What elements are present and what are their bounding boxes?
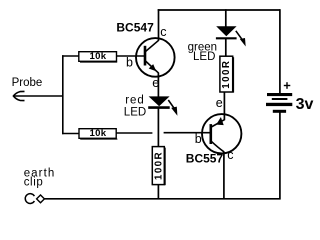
wire: probe node to R1 <box>62 55 79 57</box>
svg-text:LED: LED <box>124 107 146 119</box>
wire: BC547 emitter down to red LED <box>157 73 159 97</box>
svg-text:c: c <box>227 148 233 162</box>
red LED light arrow <box>168 100 177 116</box>
battery BT1 plus sign <box>284 82 291 89</box>
svg-text:BC547: BC547 <box>116 20 154 34</box>
svg-text:10k: 10k <box>90 128 107 139</box>
wire: BC547 collector to top rail <box>158 9 160 40</box>
svg-text:e: e <box>216 96 223 110</box>
svg-text:red: red <box>125 95 145 107</box>
earth clip jaw diamond <box>37 195 45 203</box>
svg-text:3v: 3v <box>296 96 314 113</box>
svg-text:e: e <box>152 76 159 90</box>
wire: red LED to R3 <box>157 107 159 147</box>
wire: green LED to R4 <box>225 38 227 58</box>
svg-text:Probe: Probe <box>12 77 43 89</box>
svg-text:100R: 100R <box>221 60 232 89</box>
wire: R1 to BC547 base <box>117 55 145 57</box>
svg-text:BC557: BC557 <box>186 151 224 165</box>
LED D1 red <box>148 96 170 107</box>
svg-text:100R: 100R <box>153 151 164 180</box>
wire: R2 to BC557 base, right of crossover <box>164 132 211 134</box>
wire: battery negative to bottom rail <box>279 113 281 200</box>
resistor R4 100R <box>220 56 234 92</box>
svg-text:10k: 10k <box>90 51 107 62</box>
probe tip arrowhead <box>13 91 24 100</box>
transistor Q2 BC557 <box>202 114 241 153</box>
LED D2 green <box>216 26 237 38</box>
green LED light arrow <box>236 31 246 47</box>
wire: battery positive to top rail <box>279 9 281 93</box>
resistor R1 10k <box>79 51 117 62</box>
wire: probe lead <box>14 95 63 97</box>
wire: R3 to bottom rail <box>157 184 159 200</box>
transistor Q1 BC547 <box>136 38 175 77</box>
svg-text:clip: clip <box>24 177 44 189</box>
wire: R2 to BC557 base, left of crossover <box>116 132 152 134</box>
svg-text:LED: LED <box>193 51 215 63</box>
svg-text:c: c <box>160 25 166 39</box>
resistor R3 100R <box>152 147 165 186</box>
wire: BC557 collector to bottom rail <box>223 152 225 200</box>
resistor R2 10k <box>79 128 117 139</box>
svg-text:b: b <box>195 132 202 146</box>
wire: green LED branch to top rail <box>225 9 227 27</box>
earth clip ring <box>25 194 34 204</box>
wire: left vertical probe node <box>62 55 64 134</box>
wire: R4 to BC557 emitter <box>223 92 225 121</box>
wire: bottom rail <box>44 198 280 200</box>
wire: top positive rail <box>158 9 281 11</box>
svg-text:b: b <box>126 55 133 69</box>
battery BT1 3v cells <box>266 93 292 113</box>
wire: probe node to R2 <box>62 133 80 135</box>
